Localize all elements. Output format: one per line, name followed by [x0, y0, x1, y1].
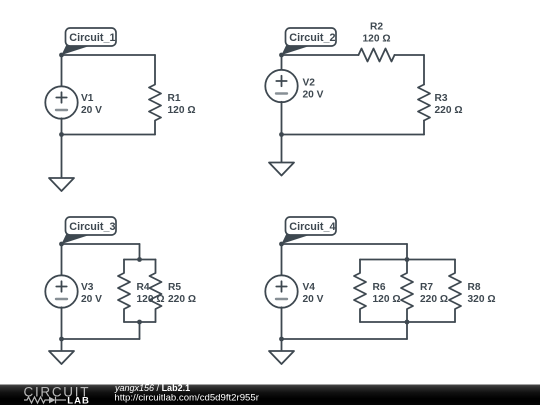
wire: C2 right branch top lead: [423, 55, 425, 85]
node: C4 bottom junction: [279, 337, 284, 342]
label R1 name: [168, 93, 181, 104]
svg-text:20 V: 20 V: [303, 90, 324, 101]
wire: C4 parallel bottom bar: [360, 321, 455, 323]
resistor R2: [359, 49, 395, 62]
wire: C4 bottom bus: [282, 338, 408, 340]
svg-text:220 Ω: 220 Ω: [435, 105, 463, 116]
svg-text:V1: V1: [81, 93, 94, 104]
label R6 name: [373, 282, 386, 293]
label R5 name: [168, 282, 181, 293]
label R3 name: [435, 93, 448, 104]
wire: C2 ground stem: [281, 135, 283, 163]
node: C3 parallel bottom junction: [137, 320, 142, 325]
wire: C3 parallel bottom bar: [124, 321, 156, 323]
svg-text:120 Ω: 120 Ω: [168, 105, 196, 116]
wire: C4 left branch bottom lead: [281, 307, 283, 339]
node: C4 top junction: [279, 242, 284, 247]
svg-text:Circuit_3: Circuit_3: [69, 221, 115, 233]
wire: C4 parallel block top stem: [406, 244, 408, 260]
resistor R5: [150, 260, 162, 323]
svg-text:20 V: 20 V: [81, 105, 102, 116]
wire: C4 top bus: [282, 243, 408, 245]
wire: C3 bottom bus: [62, 338, 140, 340]
callout label Circuit_2: [282, 28, 337, 55]
svg-text:Circuit_4: Circuit_4: [289, 221, 335, 233]
CircuitLab logo wordmark CIRCUIT: [24, 384, 91, 399]
voltage source V2: [265, 70, 297, 102]
label V4 name: [303, 282, 316, 293]
svg-text:LAB: LAB: [67, 395, 90, 405]
resistor R3: [418, 85, 430, 121]
svg-text:R1: R1: [168, 93, 181, 104]
svg-text:120 Ω: 120 Ω: [373, 294, 401, 305]
callout label Circuit_1: [62, 28, 117, 55]
label V4 value 20 V: [303, 294, 324, 305]
label V3 name: [81, 282, 94, 293]
svg-text:V3: V3: [81, 282, 94, 293]
node: C3 parallel top junction: [137, 257, 142, 262]
wire: C2 bottom bus: [282, 134, 425, 136]
wire: C3 ground stem: [61, 339, 63, 351]
CircuitLab logo resistor-diode icon: [24, 397, 66, 404]
label R1 value 120 Ω: [168, 105, 196, 116]
footer text: author / title: [114, 383, 190, 393]
wire: C2 left branch bottom lead: [281, 102, 283, 135]
wire: C4 parallel top bar: [360, 259, 455, 261]
label R8 name: [468, 282, 481, 293]
label V3 value 20 V: [81, 294, 102, 305]
wire: C2 top-left segment: [282, 54, 359, 56]
resistor R7: [401, 260, 413, 323]
callout label Circuit_3: [62, 217, 117, 244]
svg-text:R7: R7: [420, 282, 433, 293]
wire: C3 left branch top lead: [61, 244, 63, 276]
resistor R4: [118, 260, 130, 323]
svg-text:R5: R5: [168, 282, 181, 293]
ground (C3): [49, 351, 74, 364]
label R4 value 120 Ω: [137, 294, 165, 305]
node: C2 bottom junction: [279, 132, 284, 137]
label R2 value 120 Ω: [363, 34, 391, 45]
label V2 value 20 V: [303, 90, 324, 101]
label R7 value 220 Ω: [420, 294, 448, 305]
voltage source V1: [45, 86, 77, 118]
wire: C3 top bus: [62, 243, 140, 245]
svg-text:Circuit_2: Circuit_2: [289, 32, 335, 44]
svg-text:R6: R6: [373, 282, 386, 293]
voltage source V3: [45, 275, 77, 307]
wire: C1 left branch top lead: [61, 55, 63, 87]
CircuitLab logo wordmark LAB: [67, 395, 90, 405]
node: C3 bottom junction: [59, 337, 64, 342]
svg-text:20 V: 20 V: [303, 294, 324, 305]
svg-text:320 Ω: 320 Ω: [468, 294, 496, 305]
label R5 value 220 Ω: [168, 294, 196, 305]
svg-text:Circuit_1: Circuit_1: [69, 32, 115, 44]
wire: C4 ground stem: [281, 339, 283, 351]
label V1 value 20 V: [81, 105, 102, 116]
resistor R8: [449, 260, 461, 323]
label R6 value 120 Ω: [373, 294, 401, 305]
label R2 name: [370, 22, 383, 33]
svg-text:V4: V4: [303, 282, 316, 293]
svg-text:120 Ω: 120 Ω: [137, 294, 165, 305]
label V2 name: [303, 78, 316, 89]
label R4 name: [137, 282, 150, 293]
footer bar: [0, 385, 540, 405]
svg-text:120 Ω: 120 Ω: [363, 34, 391, 45]
svg-text:R8: R8: [468, 282, 481, 293]
svg-text:http://circuitlab.com/cd5d9ft2: http://circuitlab.com/cd5d9ft2r955r: [114, 393, 259, 404]
label R8 value 320 Ω: [468, 294, 496, 305]
voltage source V4: [265, 275, 297, 307]
wire: C3 parallel block bottom stem: [139, 322, 141, 339]
svg-text:220 Ω: 220 Ω: [168, 294, 196, 305]
wire: C3 parallel block top stem: [139, 244, 141, 260]
wire: C2 left branch top lead: [281, 55, 283, 70]
wire: C1 ground stem: [61, 135, 63, 179]
label R7 name: [420, 282, 433, 293]
node: C1 top junction: [59, 53, 64, 58]
svg-text:20 V: 20 V: [81, 294, 102, 305]
svg-text:R2: R2: [370, 22, 383, 33]
node: C3 top junction: [59, 242, 64, 247]
wire: C3 parallel top bar: [124, 259, 156, 261]
wire: C2 right branch bottom lead: [423, 121, 425, 135]
ground (C1): [49, 178, 74, 191]
wire: C1 top bus: [62, 54, 156, 56]
wire: C3 left branch bottom lead: [61, 307, 63, 339]
ground (C4): [269, 351, 294, 364]
svg-text:R3: R3: [435, 93, 448, 104]
wire: C2 top-right segment: [395, 54, 425, 56]
node: C4 parallel top junction: [405, 257, 410, 262]
wire: C1 left branch bottom lead: [61, 118, 63, 134]
resistor R1: [149, 55, 161, 135]
svg-text:220 Ω: 220 Ω: [420, 294, 448, 305]
wire: C4 left branch top lead: [281, 244, 283, 276]
wire: C1 bottom bus: [62, 134, 156, 136]
node: C1 bottom junction: [59, 132, 64, 137]
node: C2 top junction: [279, 53, 284, 58]
ground (C2): [269, 163, 294, 176]
label V1 name: [81, 93, 94, 104]
footer text: url: [114, 393, 259, 404]
callout label Circuit_4: [282, 217, 337, 244]
svg-text:R4: R4: [137, 282, 150, 293]
resistor R6: [354, 260, 366, 323]
wire: C4 parallel block bottom stem: [406, 322, 408, 339]
label R3 value 220 Ω: [435, 105, 463, 116]
node: C4 parallel bottom junction: [405, 320, 410, 325]
svg-text:V2: V2: [303, 78, 316, 89]
